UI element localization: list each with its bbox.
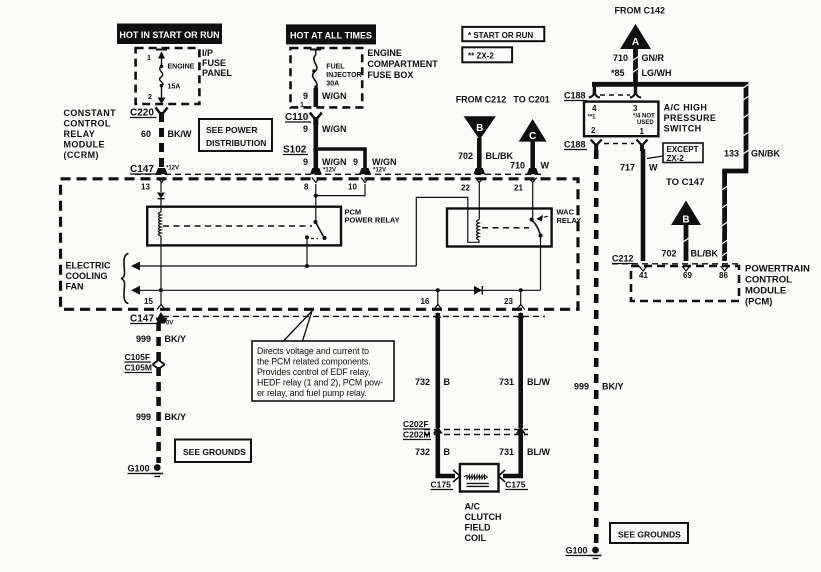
svg-text:702: 702: [458, 151, 473, 161]
relay actuation dashed line: [163, 225, 312, 227]
svg-text:999: 999: [136, 412, 151, 422]
box EXCEPT ZX-2: [647, 143, 703, 163]
header HOT IN START OR RUN: [117, 24, 222, 45]
svg-text:702: 702: [662, 249, 677, 259]
svg-text:1: 1: [300, 102, 304, 109]
WAC coil return wire: [416, 197, 479, 266]
svg-text:RELAY: RELAY: [64, 129, 96, 139]
box SEE GROUNDS left: [175, 440, 251, 463]
svg-text:C188: C188: [564, 140, 586, 150]
fan feed line 2 with arrow: [131, 286, 541, 295]
svg-text:B: B: [444, 447, 451, 457]
wire 731 BL/W lower: [499, 432, 551, 482]
CCRM module dashed border: [61, 179, 579, 309]
svg-text:er relay, and fuel pump relay.: er relay, and fuel pump relay.: [257, 388, 367, 398]
svg-text:133: 133: [724, 149, 739, 159]
ground G100 right: [566, 546, 602, 559]
svg-text:PRESSURE: PRESSURE: [664, 113, 717, 123]
svg-text:FIELD: FIELD: [465, 523, 491, 533]
wire 732 B lower: [415, 432, 460, 482]
wire 999 BK/Y left: [136, 322, 186, 463]
connector C175 right: [505, 480, 528, 490]
svg-text:60: 60: [141, 129, 151, 139]
svg-text:HOT IN START OR RUN: HOT IN START OR RUN: [119, 30, 219, 40]
node C147 plane top (dashed): [135, 173, 545, 175]
svg-text:CONTROL: CONTROL: [745, 275, 792, 286]
svg-text:COOLING: COOLING: [66, 271, 108, 281]
svg-text:22: 22: [461, 184, 470, 193]
svg-text:COIL: COIL: [465, 533, 487, 543]
module PCM dashed box: [631, 266, 739, 301]
svg-text:FROM C142: FROM C142: [615, 6, 666, 16]
wire S102 down to pin 8: [313, 149, 318, 171]
svg-text:B: B: [682, 215, 689, 226]
svg-text:G100: G100: [128, 464, 150, 474]
svg-text:**1: **1: [588, 115, 597, 121]
wire 702 BL/BK right: [662, 224, 719, 261]
svg-text:*/4 NOT: */4 NOT: [633, 114, 655, 120]
engine compartment fuse box: [291, 48, 439, 107]
A/C clutch field coil box: [460, 464, 499, 492]
wire pin10 branch: [316, 184, 365, 196]
svg-text:POWERTRAIN: POWERTRAIN: [745, 264, 810, 275]
pin 21: [514, 178, 537, 220]
junction to pin 16: [436, 288, 440, 306]
svg-text:*12V: *12V: [323, 168, 336, 174]
svg-text:EXCEPT: EXCEPT: [667, 145, 699, 154]
svg-text:LG/WH: LG/WH: [642, 68, 672, 78]
wire 710 GN/R / *85 LG/WH: [611, 48, 672, 84]
svg-text:30A: 30A: [326, 81, 339, 88]
svg-text:717: 717: [620, 163, 635, 173]
svg-text:CONSTANT: CONSTANT: [64, 108, 117, 118]
connector arrow B down: [464, 116, 496, 140]
header HOT AT ALL TIMES: [286, 24, 376, 44]
wire 731 BL/W upper: [499, 313, 550, 428]
svg-text:INJECTOR: INJECTOR: [326, 72, 361, 79]
svg-text:ENGINE: ENGINE: [168, 64, 195, 71]
splice S102: [283, 145, 318, 156]
wire 702 BL/BK to pin 22: [458, 138, 513, 174]
wire bus to pressure switch and 133: [592, 82, 746, 87]
svg-text:Provides control of EDF relay,: Provides control of EDF relay,: [257, 367, 370, 377]
pin 8: [304, 178, 320, 192]
wire 133 GN/BK: [722, 82, 781, 261]
fuse output 9 W/GN: [300, 88, 347, 109]
svg-text:(PCM): (PCM): [745, 297, 772, 308]
svg-text:TO C201: TO C201: [513, 95, 549, 105]
svg-text:C105F: C105F: [125, 352, 151, 362]
svg-text:710: 710: [613, 53, 628, 63]
svg-text:BK/W: BK/W: [168, 129, 192, 139]
svg-text:ENGINE: ENGINE: [367, 48, 402, 58]
svg-text:2: 2: [591, 126, 596, 135]
svg-text:999: 999: [136, 334, 151, 344]
connector C175 left: [431, 480, 454, 490]
svg-text:*12V: *12V: [373, 168, 386, 174]
pin 13: [141, 178, 166, 193]
svg-text:A/C: A/C: [465, 502, 481, 512]
svg-text:USED: USED: [637, 120, 654, 126]
svg-text:BL/BK: BL/BK: [486, 151, 514, 161]
svg-text:ZX-2: ZX-2: [667, 154, 685, 163]
pin 15: [144, 297, 165, 310]
wire 710 W to pin 21: [510, 140, 550, 174]
wire S102 branch to pin 10: [316, 149, 365, 171]
connector C202F C202M: [403, 419, 528, 440]
connector arrow C up: [519, 119, 547, 142]
pin 10: [348, 178, 369, 192]
svg-text:SEE GROUNDS: SEE GROUNDS: [618, 530, 681, 540]
connector C105F C105M: [125, 352, 165, 373]
svg-text:10: 10: [348, 183, 357, 192]
svg-text:C212: C212: [612, 254, 634, 264]
box SEE POWER DISTRIBUTION: [199, 119, 272, 151]
label A/C HIGH PRESSURE SWITCH: [664, 103, 717, 134]
callout box: [252, 311, 394, 401]
svg-text:SEE POWER: SEE POWER: [206, 125, 257, 135]
pin 23: [504, 297, 525, 318]
svg-text:C175: C175: [431, 480, 452, 490]
svg-text:0V: 0V: [166, 321, 173, 327]
svg-text:731: 731: [499, 447, 514, 457]
WAC relay label pointer: [537, 216, 551, 219]
svg-text:999: 999: [574, 382, 589, 392]
svg-text:CLUTCH: CLUTCH: [465, 512, 502, 522]
WAC relay switch: [530, 218, 543, 238]
fan feed line 1 with arrow: [131, 262, 416, 271]
svg-text:8: 8: [304, 183, 309, 192]
svg-text:9: 9: [303, 124, 308, 134]
svg-text:W/GN: W/GN: [372, 157, 397, 167]
svg-text:SEE GROUNDS: SEE GROUNDS: [183, 447, 246, 457]
svg-text:15: 15: [144, 297, 153, 306]
svg-text:W/GN: W/GN: [322, 91, 347, 101]
coil of PCM power relay: [159, 212, 162, 236]
connector C147 bottom: [130, 312, 173, 327]
diode on line 2: [474, 286, 482, 295]
svg-text:SWITCH: SWITCH: [664, 124, 702, 134]
label CONSTANT CONTROL RELAY MODULE (CCRM): [64, 108, 117, 160]
svg-text:HEDF relay (1 and 2), PCM pow-: HEDF relay (1 and 2), PCM pow-: [257, 378, 383, 388]
pin 16: [421, 297, 442, 318]
svg-text:RELAY: RELAY: [557, 216, 582, 225]
svg-text:9: 9: [353, 157, 358, 167]
label ELECTRIC COOLING FAN: [66, 261, 112, 292]
ground G100 left: [128, 464, 164, 477]
svg-text:DISTRIBUTION: DISTRIBUTION: [206, 138, 266, 148]
svg-text:* START OR RUN: * START OR RUN: [468, 31, 533, 40]
svg-text:1: 1: [147, 55, 151, 62]
svg-text:9: 9: [303, 91, 308, 101]
relay PCM POWER RELAY box: [147, 207, 399, 246]
svg-text:W: W: [649, 163, 658, 173]
relay switch (PCM power relay): [305, 220, 327, 240]
connector arrow B up (right): [671, 201, 701, 226]
pin 22: [461, 178, 483, 220]
connector C212: [612, 254, 739, 264]
connector C147 top: [130, 164, 179, 175]
svg-text:the PCM related components.: the PCM related components.: [257, 357, 371, 367]
svg-text:69: 69: [683, 271, 692, 280]
node C147 plane bottom (dashed): [163, 315, 545, 317]
coil of WAC relay: [477, 220, 480, 240]
svg-text:A/C HIGH: A/C HIGH: [664, 103, 708, 113]
svg-text:*85: *85: [611, 68, 625, 78]
wire 999 BK/Y right (dashed heavy): [574, 150, 624, 545]
svg-text:15A: 15A: [168, 84, 181, 91]
legend box ZX-2: [462, 47, 512, 62]
svg-text:4: 4: [592, 104, 597, 113]
svg-text:A: A: [632, 37, 639, 48]
svg-text:TO C147: TO C147: [666, 177, 704, 188]
svg-text:W: W: [541, 161, 550, 171]
svg-text:COMPARTMENT: COMPARTMENT: [367, 59, 438, 69]
svg-text:C188: C188: [564, 91, 586, 101]
WAC actuation dashed line: [482, 227, 529, 229]
svg-text:732: 732: [415, 447, 430, 457]
wire switch common down to fan line 1: [305, 237, 309, 268]
junction to pin 23: [519, 288, 523, 306]
labels 9 W/GN +12V right: [353, 157, 397, 174]
wire pin8 to switch: [314, 184, 318, 222]
label A/C CLUTCH FIELD COIL: [465, 502, 502, 544]
fuse ENGINE 15A: [147, 50, 195, 105]
svg-text:FUSE: FUSE: [202, 58, 226, 68]
svg-text:W/GN: W/GN: [322, 124, 347, 134]
svg-text:*12V: *12V: [166, 166, 179, 172]
svg-text:86: 86: [719, 271, 728, 280]
svg-text:2: 2: [148, 94, 152, 101]
wire WAC switch output down: [540, 236, 542, 291]
brace electric cooling fan: [121, 254, 129, 304]
wire EDF coil to pin 15: [159, 236, 163, 305]
svg-text:BL/BK: BL/BK: [691, 249, 719, 259]
svg-text:3: 3: [633, 104, 638, 113]
svg-text:B: B: [444, 377, 451, 387]
svg-text:41: 41: [639, 271, 648, 280]
svg-text:(CCRM): (CCRM): [64, 150, 99, 160]
svg-text:** ZX-2: ** ZX-2: [468, 52, 494, 61]
connector C188 bottom: [564, 140, 648, 152]
svg-text:FUSE BOX: FUSE BOX: [367, 70, 413, 80]
svg-text:HOT AT ALL TIMES: HOT AT ALL TIMES: [290, 31, 372, 41]
labels 9 W/GN +12V left: [303, 157, 347, 174]
svg-text:C105M: C105M: [125, 363, 152, 373]
connector C110: [285, 112, 322, 125]
svg-text:GN/R: GN/R: [642, 53, 665, 63]
svg-text:16: 16: [421, 297, 430, 306]
box SEE GROUNDS right: [610, 523, 688, 543]
svg-text:C175: C175: [505, 480, 526, 490]
svg-text:CONTROL: CONTROL: [64, 119, 111, 129]
diode D at pin 13: [157, 193, 165, 213]
A/C high pressure switch box: [584, 102, 658, 137]
svg-text:MODULE: MODULE: [745, 286, 786, 297]
svg-text:C202F: C202F: [403, 419, 429, 429]
label POWERTRAIN CONTROL MODULE (PCM): [745, 264, 810, 308]
connector C188 top: [564, 86, 641, 101]
svg-text:21: 21: [514, 184, 523, 193]
svg-text:BK/Y: BK/Y: [165, 334, 187, 344]
svg-text:1: 1: [640, 127, 645, 136]
connector C220: [130, 108, 168, 123]
svg-text:B: B: [476, 123, 483, 134]
svg-text:FROM C212: FROM C212: [456, 95, 507, 105]
svg-text:FAN: FAN: [66, 282, 84, 292]
svg-text:BL/W: BL/W: [527, 447, 550, 457]
wire 732 B upper: [415, 313, 451, 428]
svg-text:23: 23: [504, 297, 513, 306]
svg-text:BL/W: BL/W: [527, 377, 550, 387]
svg-text:POWER RELAY: POWER RELAY: [345, 216, 400, 225]
I/P fuse panel box: [136, 48, 233, 104]
svg-text:FUEL: FUEL: [326, 64, 345, 71]
relay WAC RELAY box: [447, 208, 581, 247]
svg-text:I/P: I/P: [202, 48, 213, 58]
wire C110 to S102: [303, 118, 347, 147]
svg-text:MODULE: MODULE: [64, 140, 105, 150]
connector arrow A up: [620, 24, 651, 49]
svg-text:BK/Y: BK/Y: [602, 382, 624, 392]
svg-text:731: 731: [499, 377, 514, 387]
svg-text:732: 732: [415, 377, 430, 387]
svg-text:BK/Y: BK/Y: [165, 412, 187, 422]
fuse FUEL INJECTOR 30A: [310, 50, 362, 89]
svg-text:W/GN: W/GN: [322, 157, 347, 167]
svg-text:G100: G100: [566, 546, 588, 556]
svg-text:13: 13: [141, 183, 150, 192]
svg-text:Directs voltage and current to: Directs voltage and current to: [257, 346, 369, 356]
svg-text:PANEL: PANEL: [202, 68, 232, 78]
wire 60 BK/W: [141, 113, 192, 171]
svg-text:710: 710: [510, 161, 525, 171]
svg-text:ELECTRIC: ELECTRIC: [66, 261, 112, 271]
legend box START OR RUN: [462, 27, 544, 41]
svg-text:9: 9: [303, 157, 308, 167]
wire 717 W: [620, 149, 658, 261]
svg-text:GN/BK: GN/BK: [751, 149, 781, 159]
